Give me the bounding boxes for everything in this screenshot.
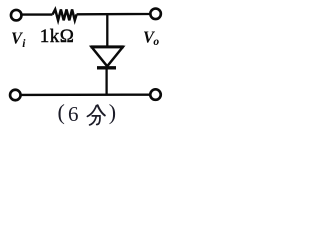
resistor R1 1kΩ zigzag [53, 9, 77, 20]
svg-text:(: ( [58, 100, 65, 125]
wire junction vertical to diode [106, 14, 108, 46]
wire top rail left segment [22, 13, 53, 15]
terminal circle bottom-right [150, 89, 161, 100]
label (6 分) hanzi fen horizontal-hook stroke [92, 116, 100, 125]
svg-text:o: o [153, 36, 159, 48]
wire diode to bottom rail [105, 68, 107, 95]
diode D1 anode top bar [91, 45, 124, 48]
terminal circle top-right [150, 9, 161, 19]
label (6 分) hanzi fen top-left stroke [87, 106, 96, 117]
label (6 分) hanzi fen top-right stroke [98, 105, 105, 115]
svg-text:6: 6 [68, 102, 79, 126]
wire bottom rail [21, 94, 150, 97]
svg-text:): ) [109, 100, 116, 125]
label (6 分) hanzi fen inner left-falling stroke [90, 117, 97, 125]
wire top rail right segment [77, 13, 150, 16]
terminal circle bottom-left [10, 90, 20, 101]
terminal circle top-left [11, 10, 22, 21]
diode D1 cathode bar [97, 66, 116, 69]
svg-text:1kΩ: 1kΩ [40, 26, 75, 47]
diode D1 triangle (anode top) [92, 47, 123, 66]
